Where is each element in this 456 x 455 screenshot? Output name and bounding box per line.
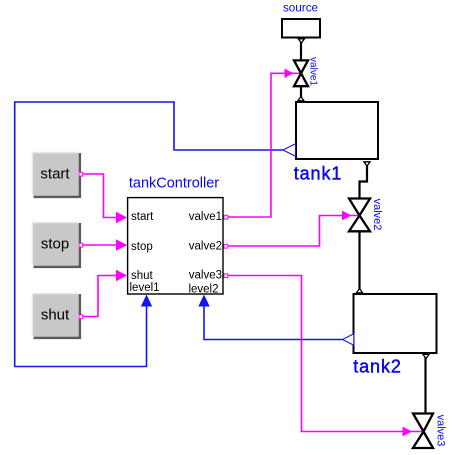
svg-text:tankController: tankController [129,176,219,192]
svg-text:shut: shut [131,270,154,282]
svg-text:start: start [40,166,70,183]
svg-text:level2: level2 [188,284,218,296]
svg-text:valve1: valve1 [308,57,319,86]
svg-text:source: source [283,2,318,15]
svg-text:stop: stop [41,236,69,253]
svg-text:valve2: valve2 [189,241,222,253]
svg-text:level1: level1 [130,282,160,294]
svg-text:valve3: valve3 [434,415,446,447]
svg-text:shut: shut [41,307,70,324]
svg-text:tank2: tank2 [353,357,402,377]
svg-text:tank1: tank1 [294,164,343,184]
svg-text:valve2: valve2 [371,199,383,231]
svg-text:valve1: valve1 [189,211,222,223]
svg-text:start: start [131,211,154,223]
svg-text:stop: stop [131,241,153,253]
svg-text:valve3: valve3 [189,270,222,282]
